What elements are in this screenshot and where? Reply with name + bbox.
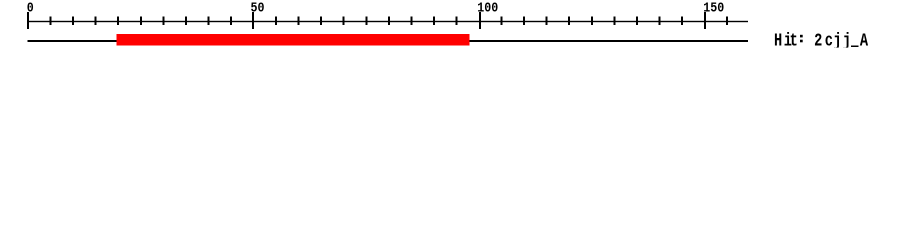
hit coverage bar (red) xyxy=(117,34,470,45)
hit label colon xyxy=(800,35,803,38)
svg-text:100: 100 xyxy=(477,0,498,16)
ruler axis line xyxy=(28,21,748,22)
ruler small ticks xyxy=(50,16,729,25)
query line xyxy=(28,40,748,42)
ruler big tick 0 xyxy=(27,12,29,29)
svg-text:0: 0 xyxy=(27,0,34,16)
ruler big tick 50 xyxy=(252,12,254,29)
ruler big tick 100 xyxy=(479,12,481,29)
hit label underscore xyxy=(851,45,858,47)
ruler big tick 150 xyxy=(704,12,706,29)
svg-text:50: 50 xyxy=(251,0,265,16)
svg-text:150: 150 xyxy=(703,0,724,16)
svg-text:Hit2cjjA: Hit2cjjA xyxy=(774,30,868,52)
